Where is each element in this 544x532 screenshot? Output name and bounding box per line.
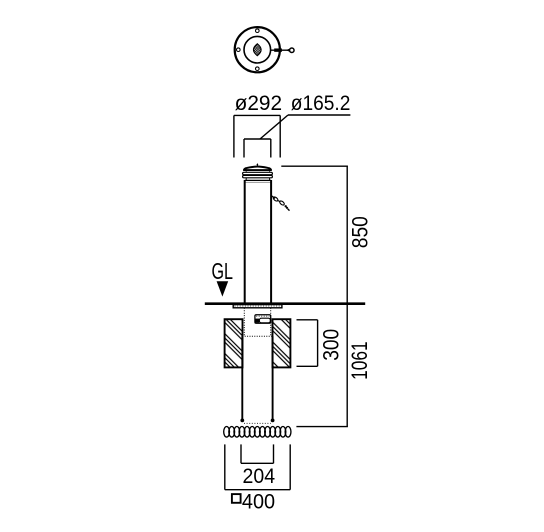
dia165.2 bracket horizontal — [244, 138, 271, 140]
svg-text:ø165.2: ø165.2 — [291, 91, 351, 115]
anchor coil — [224, 427, 291, 438]
height dim bottom leader — [296, 426, 348, 428]
GL arrow — [217, 281, 229, 296]
400 dim left extension — [224, 444, 226, 489]
dia165.2 leader diagonal — [260, 115, 288, 139]
svg-text:1061: 1061 — [347, 341, 372, 380]
key lens (hatched) — [254, 44, 262, 56]
400 dim bottom line — [225, 489, 290, 491]
svg-text:204: 204 — [243, 464, 276, 488]
post body light line — [245, 181, 271, 183]
cap nub — [257, 163, 259, 166]
dia292 extension right — [279, 115, 281, 157]
chain dot 1 — [285, 205, 287, 207]
dia292 dim underline — [234, 114, 280, 116]
casing left side — [241, 336, 243, 420]
300 bracket bottom — [297, 365, 318, 367]
post body left side — [244, 180, 246, 304]
chain link 1 — [273, 196, 279, 202]
ground line — [205, 302, 365, 305]
dia165.2 extension left — [243, 139, 245, 158]
base flange — [233, 305, 282, 308]
casing end dot left — [240, 419, 244, 423]
top view inner circle (post dia 165.2) — [244, 36, 271, 63]
sleeve hidden left side — [243, 308, 245, 336]
base flange dotted line — [235, 305, 282, 307]
key handle grip bar — [274, 48, 282, 51]
cap ridge 1 — [243, 172, 273, 174]
key handle ring — [290, 48, 295, 53]
204 dim left extension — [240, 444, 242, 463]
height dim top leader — [281, 165, 348, 167]
cap ridge 2 — [243, 175, 273, 177]
dia292 extension left — [233, 115, 235, 157]
chain end tick — [288, 209, 290, 211]
casing end dot right — [271, 419, 275, 423]
bolt hole top — [255, 29, 259, 33]
key handle shaft — [271, 49, 288, 51]
lock detail inner — [259, 318, 270, 323]
chain link 2 — [279, 200, 285, 206]
svg-text:400: 400 — [242, 490, 275, 514]
concrete block right — [273, 319, 291, 367]
bolt hole left — [237, 48, 241, 52]
300 bracket top — [297, 319, 318, 321]
bolt hole bottom — [255, 67, 259, 71]
casing bottom dotted line — [244, 422, 271, 424]
post body right side — [270, 180, 272, 304]
svg-text:300: 300 — [318, 329, 343, 361]
svg-text:GL: GL — [212, 258, 234, 284]
casing right side — [272, 336, 274, 420]
lock detail dotted top — [256, 315, 269, 317]
square symbol — [232, 494, 241, 503]
400 dim right extension — [289, 444, 291, 489]
svg-text:ø292: ø292 — [235, 91, 283, 115]
204 dim right extension — [273, 444, 275, 463]
dia165.2 extension right — [270, 139, 272, 158]
sleeve hidden right side — [270, 308, 272, 336]
sleeve hidden bottom — [242, 335, 272, 337]
cap neck 2 sides — [245, 178, 247, 180]
concrete block left — [225, 319, 243, 367]
key handle cone — [286, 49, 290, 52]
300 bracket vertical — [317, 320, 319, 367]
lock detail outer — [255, 315, 271, 324]
svg-text:850: 850 — [347, 216, 372, 248]
chain attach line — [271, 196, 275, 199]
lock detail dark corner — [256, 319, 260, 323]
post body top line — [245, 179, 271, 181]
cap neck 1 sides — [245, 171, 247, 172]
cap dome — [244, 167, 271, 171]
top view outer circle (flange dia 292) — [235, 27, 280, 72]
chain mid line — [278, 201, 280, 202]
204 dim bottom line — [241, 462, 274, 464]
chain dot 2 — [286, 207, 288, 209]
dia165.2 underline — [288, 114, 350, 116]
height dim vertical line — [346, 166, 348, 426]
